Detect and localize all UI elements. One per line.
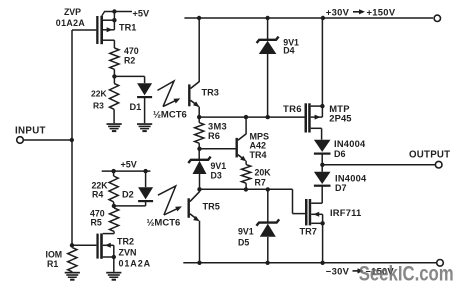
svg-text:R3: R3 [93, 100, 104, 110]
svg-text:22K: 22K [91, 88, 107, 98]
svg-text:+5V: +5V [121, 159, 137, 169]
svg-text:½MCT6: ½MCT6 [147, 218, 181, 229]
svg-text:R2: R2 [124, 56, 135, 66]
svg-text:D2: D2 [122, 189, 134, 199]
svg-text:R4: R4 [92, 189, 103, 199]
svg-text:R6: R6 [208, 131, 220, 141]
svg-text:+30V: +30V [326, 7, 350, 18]
svg-text:INPUT: INPUT [15, 125, 46, 136]
svg-text:IN4004: IN4004 [334, 139, 366, 149]
svg-text:D6: D6 [334, 149, 346, 159]
svg-text:IN4004: IN4004 [335, 173, 367, 183]
svg-text:ZVN: ZVN [119, 248, 137, 258]
svg-text:A42: A42 [250, 141, 267, 151]
svg-text:TR2: TR2 [117, 236, 134, 246]
svg-text:3M3: 3M3 [208, 121, 227, 131]
svg-text:TR5: TR5 [203, 202, 220, 212]
svg-text:R1: R1 [47, 259, 58, 269]
svg-text:TR1: TR1 [119, 22, 136, 32]
svg-text:TR4: TR4 [250, 150, 267, 160]
svg-text:+5V: +5V [133, 8, 150, 18]
svg-text:SeekIC.com: SeekIC.com [359, 263, 454, 286]
svg-text:D5: D5 [238, 238, 249, 248]
svg-text:01A2A: 01A2A [56, 18, 86, 28]
svg-text:20K: 20K [255, 167, 272, 177]
svg-text:R5: R5 [91, 217, 102, 227]
svg-text:2P45: 2P45 [329, 113, 351, 124]
svg-text:R7: R7 [255, 177, 266, 187]
svg-text:D4: D4 [283, 46, 294, 56]
svg-text:ZVP: ZVP [64, 7, 81, 17]
svg-text:D3: D3 [211, 170, 222, 180]
svg-text:−30V: −30V [326, 266, 350, 277]
svg-text:TR7: TR7 [300, 227, 317, 237]
svg-text:+150V: +150V [367, 7, 396, 18]
svg-text:D1: D1 [130, 102, 142, 112]
svg-text:9V1: 9V1 [238, 226, 254, 236]
svg-text:TR6: TR6 [283, 104, 302, 115]
svg-text:TR3: TR3 [202, 87, 219, 97]
svg-text:IRF711: IRF711 [330, 207, 361, 218]
svg-text:D7: D7 [335, 183, 347, 193]
svg-text:01A2A: 01A2A [119, 259, 152, 269]
svg-text:OUTPUT: OUTPUT [409, 149, 450, 160]
svg-text:½MCT6: ½MCT6 [153, 110, 187, 121]
